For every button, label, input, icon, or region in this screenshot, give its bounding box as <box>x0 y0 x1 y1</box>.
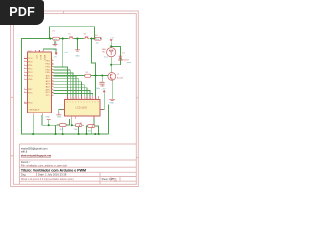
svg-text:R4: R4 <box>95 35 97 37</box>
svg-text:0: 0 <box>91 98 92 100</box>
svg-text:BC548: BC548 <box>117 78 123 80</box>
trimpot R4 contrast <box>88 124 95 133</box>
svg-text:eletronicaeblogspot.net: eletronicaeblogspot.net <box>21 153 51 157</box>
wire IC AVCC to +5V <box>43 49 56 52</box>
wire left GND rail <box>22 39 109 134</box>
ground AGND flag <box>47 118 51 120</box>
svg-text:10k: 10k <box>54 39 57 41</box>
wire LCD bus line 8 <box>54 88 87 100</box>
svg-text:GND: GND <box>53 49 58 51</box>
wire LCD bus line 10 <box>54 94 93 100</box>
ground LCD left <box>56 112 61 115</box>
display LCD1 16x2 <box>62 96 103 119</box>
motor M1 fan <box>102 48 116 57</box>
wire pot leads <box>72 119 84 134</box>
svg-text:pwm: pwm <box>127 62 132 64</box>
svg-text:wifi &: wifi & <box>21 150 28 154</box>
svg-text:9: 9 <box>88 98 89 100</box>
svg-text:10k: 10k <box>96 43 99 45</box>
wire IC bottom GND drop <box>32 115 34 134</box>
svg-text:10k: 10k <box>74 129 77 131</box>
svg-text:GND: GND <box>57 117 62 119</box>
svg-text:7: 7 <box>82 98 83 100</box>
supply +5V motor <box>110 38 115 42</box>
svg-text:10k: 10k <box>88 131 91 133</box>
svg-text:R5: R5 <box>86 72 88 74</box>
capacitor C1 100n <box>96 82 105 90</box>
svg-text:4: 4 <box>74 98 75 100</box>
svg-text:3: 3 <box>71 98 72 100</box>
svg-text:MCad 1.1A mod 1.0.3-mfg (vent: MCad 1.1A mod 1.0.3-mfg (ventilador ardu… <box>21 178 74 181</box>
ground emitter <box>109 99 115 104</box>
supply +5V LCD <box>102 88 106 92</box>
svg-text:File: ventilador_com_arduino_e: File: ventilador_com_arduino_e_pwm.sch <box>21 165 68 168</box>
wire trimpot R3 drop <box>62 127 64 134</box>
wire transistor base net <box>54 75 109 77</box>
wire +5V to motor <box>110 42 112 48</box>
svg-text:2: 2 <box>96 98 97 100</box>
svg-text:GND: GND <box>45 117 50 119</box>
svg-text:1 /1: 1 /1 <box>114 181 117 183</box>
svg-text:10k: 10k <box>96 39 99 41</box>
wire LCD bus line 5 <box>54 79 79 100</box>
resistor R2 <box>59 124 66 131</box>
wire LCD bus line 3 <box>54 73 73 100</box>
wire LCD bus line 7 <box>54 85 85 100</box>
wire transistor emitter to GND <box>111 80 113 99</box>
svg-text:5: 5 <box>77 98 78 100</box>
junction dots <box>32 38 112 136</box>
svg-text:20: 20 <box>38 51 40 53</box>
resistor R4 <box>95 35 102 45</box>
wire contrast pot leads <box>87 119 99 134</box>
wire LCD bus line 4 <box>54 76 76 100</box>
wire cap drop <box>101 76 103 86</box>
svg-text:GND: GND <box>75 56 80 58</box>
resistor R5 base <box>85 72 91 77</box>
wire LCD right pin to +5V <box>100 92 104 109</box>
svg-text:21: 21 <box>42 51 44 53</box>
wire button drop to IC pin <box>62 39 64 67</box>
wire button drop stub S2 <box>76 39 78 50</box>
svg-text:Dsg.: Dsg. <box>21 173 27 177</box>
svg-text:S2: S2 <box>84 34 86 36</box>
switch S2 <box>84 34 90 39</box>
wire motor to transistor collector <box>110 57 112 73</box>
wire flyback diode branch <box>111 46 120 64</box>
svg-text:S1: S1 <box>68 34 70 36</box>
svg-text:100n: 100n <box>96 88 100 90</box>
ground under cap <box>100 85 104 87</box>
svg-text:Date: 1 July 2016 23:38: Date: 1 July 2016 23:38 <box>38 173 67 177</box>
wire button row net <box>50 38 101 40</box>
svg-text:AVCC: AVCC <box>39 55 42 61</box>
svg-text:MEGA8-P: MEGA8-P <box>30 108 40 111</box>
wire stub under R1 <box>54 41 56 44</box>
wire top bypass rail <box>50 27 95 39</box>
supply +5V near IC <box>53 53 57 59</box>
svg-text:VCC: VCC <box>35 55 37 60</box>
svg-text:espim555@gmail.com: espim555@gmail.com <box>21 146 48 150</box>
svg-text:8: 8 <box>85 98 86 100</box>
wire LCD bus line 6 <box>54 82 82 100</box>
svg-text:AREF: AREF <box>43 55 46 61</box>
svg-text:GND: GND <box>110 103 115 105</box>
svg-text:7: 7 <box>35 51 36 53</box>
wire R2 leads <box>57 119 70 125</box>
op IC1 ATMEGA8 <box>24 50 54 115</box>
wire IC bottom AGND elbow <box>42 115 59 134</box>
ground under R1 stub <box>53 45 59 51</box>
svg-text:T1: T1 <box>117 74 119 76</box>
svg-text:1: 1 <box>93 98 94 100</box>
trimpot R3 <box>74 122 82 131</box>
svg-text:D1: D1 <box>122 53 124 55</box>
wire LCD bus line 9 <box>54 91 90 100</box>
ground under S2 drop <box>75 50 80 58</box>
svg-text:RST: RST <box>46 92 51 94</box>
svg-text:Título: Ventilador com Arduino: Título: Ventilador com Arduino e PWM <box>21 168 86 172</box>
wire button drop S3 to base and LCD pin 11 <box>92 39 96 100</box>
svg-text:R1: R1 <box>53 31 55 33</box>
svg-text:6: 6 <box>79 98 80 100</box>
resistor R1 <box>53 31 60 45</box>
diode D1 1N4007 <box>119 53 129 62</box>
wire LCD left pin to GND <box>59 110 62 112</box>
switch S1 <box>68 34 74 39</box>
svg-text:2: 2 <box>68 98 69 100</box>
transistor T1 BC548 <box>108 73 123 81</box>
svg-text:1: 1 <box>65 98 66 100</box>
svg-text:lcd: lcd <box>65 52 68 54</box>
wire LCD bus line 1 <box>54 67 68 99</box>
svg-text:LCD 16X2: LCD 16X2 <box>76 107 88 110</box>
wire LCD bus line 2 <box>54 70 71 99</box>
